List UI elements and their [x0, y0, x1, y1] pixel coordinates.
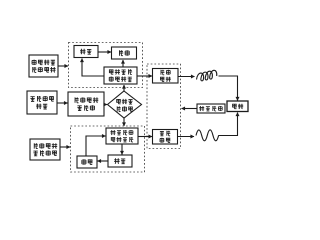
- box 电网整流滤波: [27, 91, 57, 114]
- wire: diamond to inverter: [123, 118, 125, 126]
- wire: coil L1 to load: [219, 76, 238, 101]
- diamond 传输模式选择: [108, 91, 142, 118]
- coil L2 (coupling coil): [196, 130, 219, 141]
- wire: hf-inverter to ctrl-top: [82, 59, 104, 77]
- wire: load to 传输方式: [182, 108, 198, 110]
- box 传输 (bottom): [108, 155, 132, 167]
- wire: rectifier to hall sensor: [57, 102, 68, 104]
- wire: resonance box to coil L1: [178, 76, 195, 78]
- dashed box: transmit coils unit: [147, 64, 181, 149]
- box 电磁耦合: [153, 130, 178, 145]
- wire: hf-inverter to resonance box: [137, 75, 152, 77]
- box 电磁共振控制电路: [29, 55, 58, 77]
- wire: ctrl-top to trans-top: [98, 51, 111, 53]
- box 霍尔电流传感器: [68, 92, 104, 116]
- box 逆变并联谐振: [106, 128, 138, 144]
- box 电磁共振: [153, 69, 179, 84]
- wire: coil L2 to load: [219, 113, 238, 136]
- wire: coupling-control to transmit unit: [60, 146, 70, 148]
- box 控制 (bottom): [77, 156, 97, 168]
- wire: coupling box to coil L2: [178, 136, 195, 138]
- box 高频逆变串联谐振: [104, 67, 137, 84]
- dashed box: coupling transmit unit: [71, 126, 145, 172]
- wire: hf-inverter to trans-top: [122, 60, 124, 67]
- wire: diamond to hf-inverter: [123, 85, 125, 91]
- wire: inverter to trans-bottom: [121, 144, 123, 155]
- wire: trans-bottom to ctrl-bottom: [98, 160, 109, 162]
- wire: inverter to coupling box: [138, 136, 152, 138]
- dashed box: resonance transmit unit: [69, 43, 143, 88]
- wire: ctrl-bottom to inverter: [86, 136, 106, 156]
- coil L1 (resonance coil): [197, 70, 217, 81]
- wire: hall sensor to diamond: [104, 104, 107, 106]
- box 控制 (top): [74, 46, 98, 58]
- box 传输 (top): [112, 47, 137, 59]
- box 负载: [227, 101, 248, 112]
- box 电磁耦合控制电路: [30, 139, 60, 160]
- box 传输方式: [197, 104, 225, 113]
- wire: resonance-control to transmit unit: [58, 65, 68, 67]
